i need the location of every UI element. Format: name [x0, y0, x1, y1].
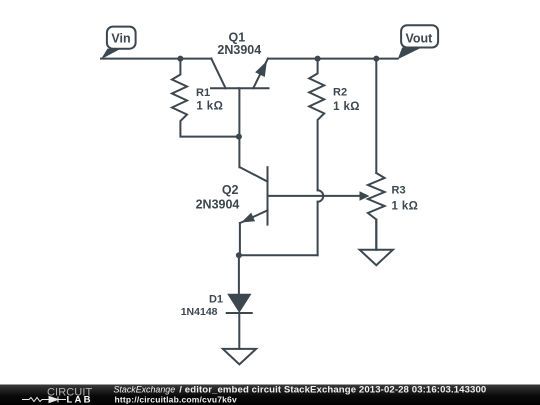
wire bottom node horizontal — [239, 254, 318, 256]
transistor Q1 — [211, 59, 269, 89]
svg-text:R3: R3 — [392, 185, 406, 197]
node dot Vin-R1 — [177, 56, 183, 62]
wire R3 top — [375, 59, 377, 173]
svg-text:Vout: Vout — [405, 31, 433, 45]
svg-text:1 kΩ: 1 kΩ — [392, 200, 419, 212]
potentiometer R3 — [368, 173, 385, 250]
flag Vout — [398, 25, 438, 59]
node dot R3 top — [373, 56, 379, 62]
wire Q1 base down to Q2 collector — [238, 88, 240, 167]
svg-text:2N3904: 2N3904 — [196, 198, 240, 212]
svg-text:http://circuitlab.com/cvu7k6v: http://circuitlab.com/cvu7k6v — [115, 395, 237, 405]
svg-text:R1: R1 — [196, 87, 210, 99]
transistor Q2 — [240, 167, 360, 224]
wire R3 to ground — [375, 220, 377, 250]
wire D1 to ground — [238, 313, 240, 349]
wire Vin to Q1 collector — [101, 58, 211, 60]
wire Q1 emitter to Vout — [268, 58, 398, 60]
wire R2 lead below hop — [317, 202, 319, 256]
wire Q2 emitter down — [239, 223, 241, 255]
svg-text:LAB: LAB — [67, 394, 93, 405]
ground under D1 — [223, 349, 256, 365]
diode D1 — [227, 294, 252, 313]
ground under R3 — [360, 250, 393, 266]
node dot R1-Q1 base — [236, 134, 242, 140]
node dot emitter-R2-D1 — [236, 252, 242, 258]
wire hop R2 lead over Q2 base wire — [318, 190, 324, 201]
svg-text:D1: D1 — [209, 293, 223, 305]
svg-text:2N3904: 2N3904 — [217, 43, 261, 57]
footer logo doodle — [22, 397, 66, 403]
svg-text:1N4148: 1N4148 — [181, 306, 218, 318]
resistor R2 — [309, 59, 324, 191]
svg-text:1 kΩ: 1 kΩ — [196, 100, 223, 112]
wire node to D1 — [238, 255, 240, 294]
arrowhead R3 wiper — [360, 191, 370, 200]
svg-text:Vin: Vin — [111, 31, 130, 45]
footer bar — [0, 385, 540, 405]
svg-text:Q2: Q2 — [222, 183, 239, 197]
svg-text:R2: R2 — [333, 86, 347, 98]
resistor R1 — [172, 59, 239, 137]
svg-text:1 kΩ: 1 kΩ — [333, 101, 360, 113]
flag Vin — [101, 27, 136, 60]
arrowhead Q2 emitter — [241, 213, 255, 223]
svg-text:StackExchange: StackExchange — [114, 385, 176, 395]
node dot R2 top — [315, 56, 321, 62]
